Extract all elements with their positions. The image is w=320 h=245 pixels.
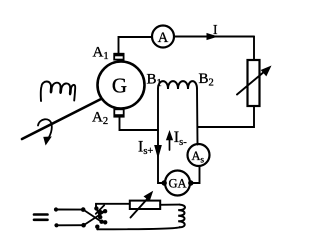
wire A1 up and right to ammeter <box>119 37 153 54</box>
svg-text:Is-: Is- <box>174 129 187 148</box>
rheostat arrow <box>237 71 265 95</box>
wire coil left down to GA <box>158 89 164 183</box>
bottom return wire <box>97 227 179 229</box>
wire A2 down and right <box>120 117 159 131</box>
svg-text:As: As <box>192 149 205 165</box>
switch bottom bracket <box>96 227 98 230</box>
terminal A1 brush <box>114 54 123 60</box>
wire rheostat to coil <box>160 204 179 206</box>
ammeter A circle <box>152 26 174 48</box>
svg-text:A: A <box>158 30 169 46</box>
battery = symbol <box>34 215 48 220</box>
field coil B1-B2 <box>158 81 197 89</box>
svg-text:G: G <box>112 74 127 98</box>
rotation arrow <box>38 119 52 137</box>
switch blade 2 <box>84 211 105 225</box>
junction dot GA right <box>188 180 193 185</box>
contact stub upper <box>100 210 105 213</box>
switch top bracket <box>96 204 130 208</box>
svg-text:GA: GA <box>168 177 186 191</box>
shaft <box>22 99 101 139</box>
svg-text:B1: B1 <box>147 72 162 90</box>
switch blade 1 <box>83 210 101 222</box>
svg-text:A2: A2 <box>92 110 108 128</box>
svg-text:B2: B2 <box>199 71 214 89</box>
field rheostat arrow <box>131 199 148 218</box>
switch lower lead <box>57 224 84 226</box>
field winding coil vertical <box>178 205 185 228</box>
wire As bottom to GA right <box>191 166 200 183</box>
arrow Is+ on left wire <box>155 146 161 158</box>
terminal A2 brush <box>114 109 123 116</box>
field rheostat <box>130 201 160 209</box>
svg-text:I: I <box>213 22 218 37</box>
wire coil right down to As <box>196 89 199 145</box>
wire rheostat bottom to tee <box>198 106 254 127</box>
load rheostat R <box>248 60 260 106</box>
current arrow I <box>207 34 217 40</box>
switch upper lead <box>56 209 83 211</box>
generator G circle <box>98 62 145 109</box>
svg-text:Is+: Is+ <box>138 138 153 157</box>
junction dot GA left <box>162 180 167 185</box>
crossover link <box>96 205 104 214</box>
arrow Is- floating <box>169 138 171 150</box>
svg-text:A1: A1 <box>93 45 109 63</box>
galvanometer GA <box>165 171 190 196</box>
ammeter As <box>188 144 210 166</box>
contact dots <box>94 206 98 210</box>
contact stub lower <box>102 221 106 224</box>
wire corner down to rheostat <box>253 37 255 61</box>
prime mover coil squiggle <box>41 82 75 102</box>
wire ammeter to right corner <box>174 36 254 38</box>
